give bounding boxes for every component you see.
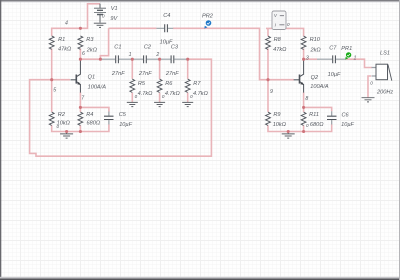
svg-text:0: 0 — [135, 94, 138, 99]
probe PR2 — [204, 20, 211, 28]
svg-text:0: 0 — [162, 94, 165, 99]
svg-text:2: 2 — [155, 52, 159, 58]
battery V1 — [94, 4, 106, 23]
node 1 junction — [131, 58, 134, 61]
node 8 junction — [302, 106, 305, 109]
svg-text:4.7kΩ: 4.7kΩ — [193, 91, 209, 97]
svg-text:R2: R2 — [58, 112, 66, 118]
transistor Q1 — [71, 59, 81, 92]
ground (stage1 rail) — [60, 132, 73, 139]
svg-text:C4: C4 — [163, 13, 170, 19]
resistor R2 — [49, 112, 54, 125]
svg-text:R8: R8 — [274, 37, 282, 43]
wire: R2 top lead — [51, 80, 53, 112]
capacitor C5 — [104, 116, 114, 119]
wattmeter box U1 — [272, 11, 286, 30]
svg-text:2kΩ: 2kΩ — [86, 47, 98, 53]
ground (stage2 rail) — [282, 132, 295, 139]
wire: node3 right — [304, 58, 317, 60]
node 4 junction — [79, 27, 82, 30]
resistor R7 — [185, 79, 190, 92]
resistor R5 — [130, 79, 135, 92]
wire: speaker pin stubs — [372, 68, 377, 77]
svg-text:1: 1 — [354, 56, 357, 62]
svg-text:C7: C7 — [329, 46, 337, 52]
wire: stage1 bottom rail — [52, 125, 109, 132]
wire: R1 bottom to base node — [51, 49, 53, 80]
resistor R9 — [266, 112, 271, 125]
wire: C4 rail right to stage2 base — [173, 28, 268, 79]
capacitor C6 — [327, 116, 337, 119]
net 0 labels — [57, 14, 374, 129]
svg-text:27nF: 27nF — [138, 71, 152, 77]
probe PR1 — [345, 52, 351, 59]
ground (R6) — [154, 102, 165, 106]
resistor R6 — [157, 79, 162, 92]
svg-text:R6: R6 — [165, 81, 173, 87]
wire: base node to Q2 base — [268, 79, 294, 81]
svg-text:27nF: 27nF — [165, 71, 179, 77]
resistor R11 — [301, 112, 306, 125]
svg-text:4: 4 — [65, 21, 68, 27]
node 3 junction — [302, 58, 305, 61]
node 5 junction — [50, 78, 53, 81]
ground junction stage2 — [287, 130, 290, 133]
gray component stub wires — [100, 28, 376, 124]
svg-text:4.7kΩ: 4.7kΩ — [165, 91, 181, 97]
net number labels — [53, 21, 356, 102]
svg-text:0: 0 — [102, 14, 105, 19]
node 6 junction at C4 branch — [99, 58, 102, 61]
svg-text:5: 5 — [53, 87, 56, 93]
svg-text:R3: R3 — [86, 37, 94, 43]
svg-text:1: 1 — [129, 52, 132, 58]
svg-text:3: 3 — [306, 56, 309, 62]
wire: node 6 to C4 branch — [80, 28, 108, 59]
svg-text:680Ω: 680Ω — [310, 122, 324, 128]
resistor R4 — [78, 112, 83, 125]
node 6 junction — [79, 58, 82, 61]
svg-text:C1: C1 — [114, 44, 121, 50]
wire: node7 to C5 — [80, 107, 109, 111]
svg-text:6: 6 — [82, 51, 85, 57]
wire: R6 leads — [159, 59, 161, 102]
node R7 top junction — [186, 58, 189, 61]
node 9 junction — [266, 78, 269, 81]
svg-text:10µF: 10µF — [119, 122, 132, 128]
svg-text:0: 0 — [190, 94, 193, 99]
resistor R8 — [266, 36, 271, 49]
wire: R11 bottom lead — [303, 125, 305, 131]
wire: battery top feed — [30, 4, 372, 156]
wire: C7 to speaker — [346, 59, 372, 67]
wire: chain gray segments — [100, 58, 187, 60]
R11 bottom junction — [302, 130, 305, 133]
transistor Q2 — [294, 59, 304, 92]
svg-text:0: 0 — [370, 81, 373, 86]
wire: Q2 emitter to node8 — [303, 93, 305, 108]
ground (R5) — [127, 102, 138, 106]
svg-text:R4: R4 — [86, 112, 93, 118]
svg-text:PR2: PR2 — [202, 13, 214, 19]
ground (speaker) — [362, 98, 375, 102]
wire: node8 to C6 — [304, 107, 332, 111]
svg-text:100A/A: 100A/A — [88, 85, 107, 91]
speaker LS1 — [376, 64, 392, 81]
wire: R7 leads — [187, 59, 189, 102]
svg-text:PR1: PR1 — [341, 46, 352, 52]
svg-text:47kΩ: 47kΩ — [58, 46, 72, 52]
capacitor C4 — [104, 24, 337, 119]
svg-text:0: 0 — [57, 124, 60, 129]
svg-text:8: 8 — [305, 96, 308, 102]
svg-text:100A/A: 100A/A — [310, 84, 329, 90]
svg-text:C5: C5 — [119, 112, 127, 118]
wire: Q1 emitter to node7 — [79, 93, 81, 108]
svg-text:10µF: 10µF — [341, 122, 354, 128]
junction dots — [50, 27, 305, 133]
svg-text:2kΩ: 2kΩ — [310, 47, 322, 53]
capacitor C3 — [171, 55, 174, 63]
wire: C4 stubs — [156, 27, 173, 29]
wire: speaker bottom to ground — [368, 76, 371, 97]
svg-text:Q2: Q2 — [311, 75, 319, 81]
svg-text:C6: C6 — [342, 113, 350, 119]
svg-text:C3: C3 — [171, 44, 179, 50]
wire: R9 lead — [267, 80, 269, 112]
svg-text:Q1: Q1 — [88, 75, 95, 81]
wire: box right pin to R10 — [286, 28, 304, 36]
ground (R7) — [182, 102, 193, 106]
svg-text:R7: R7 — [193, 81, 201, 87]
wire: R3 bottom to node 6 — [79, 49, 81, 60]
svg-text:10kΩ: 10kΩ — [273, 122, 287, 128]
wire: C7 stubs — [317, 58, 346, 60]
svg-text:27nF: 27nF — [111, 71, 125, 77]
ground (battery) — [94, 23, 106, 27]
svg-text:0: 0 — [287, 22, 290, 27]
svg-text:4.7kΩ: 4.7kΩ — [138, 91, 154, 97]
resistor R10 — [301, 36, 306, 49]
node 2 junction — [158, 58, 161, 61]
svg-text:R1: R1 — [58, 37, 65, 43]
svg-text:C2: C2 — [144, 44, 152, 50]
svg-text:10µF: 10µF — [328, 72, 341, 78]
svg-text:9: 9 — [270, 89, 273, 95]
svg-text:680Ω: 680Ω — [87, 121, 101, 127]
svg-text:R9: R9 — [273, 112, 280, 118]
wire: C6 stubs — [331, 111, 333, 124]
ground junction stage1 — [65, 130, 68, 133]
svg-text:R10: R10 — [310, 37, 321, 43]
wire: chain out to feedback loop — [30, 59, 212, 156]
wire: C5 stubs — [108, 112, 110, 125]
wire: C4 rail left — [109, 27, 157, 29]
capacitor C2 — [144, 55, 147, 63]
wire: R5 leads — [131, 59, 133, 102]
wire: box left pin to R8 — [266, 28, 272, 79]
wire: VCC rail R1-R3 — [52, 28, 81, 36]
svg-text:LS1: LS1 — [380, 51, 390, 57]
page borders — [0, 0, 400, 1]
wire: node8 to R11 — [303, 107, 305, 112]
wire: R10 bottom to node3 — [303, 49, 305, 60]
svg-text:R11: R11 — [309, 112, 319, 118]
wire: node7 to R4 — [79, 107, 81, 112]
svg-text:V1: V1 — [111, 6, 118, 12]
capacitor C1 — [116, 55, 119, 63]
capacitor C7 — [333, 55, 336, 63]
svg-text:47kΩ: 47kΩ — [273, 47, 287, 53]
resistor R1 — [49, 36, 306, 126]
wire: base wire Q1 — [52, 79, 70, 81]
wire: R4 bottom lead — [79, 125, 81, 131]
node 7 junction — [79, 106, 82, 109]
R4 bottom junction — [79, 130, 82, 133]
svg-text:R5: R5 — [138, 81, 146, 87]
resistor R3 — [78, 36, 83, 49]
wire: stage2 bottom rail — [268, 125, 332, 132]
svg-text:200Hz: 200Hz — [376, 90, 393, 96]
svg-text:0: 0 — [306, 123, 309, 128]
